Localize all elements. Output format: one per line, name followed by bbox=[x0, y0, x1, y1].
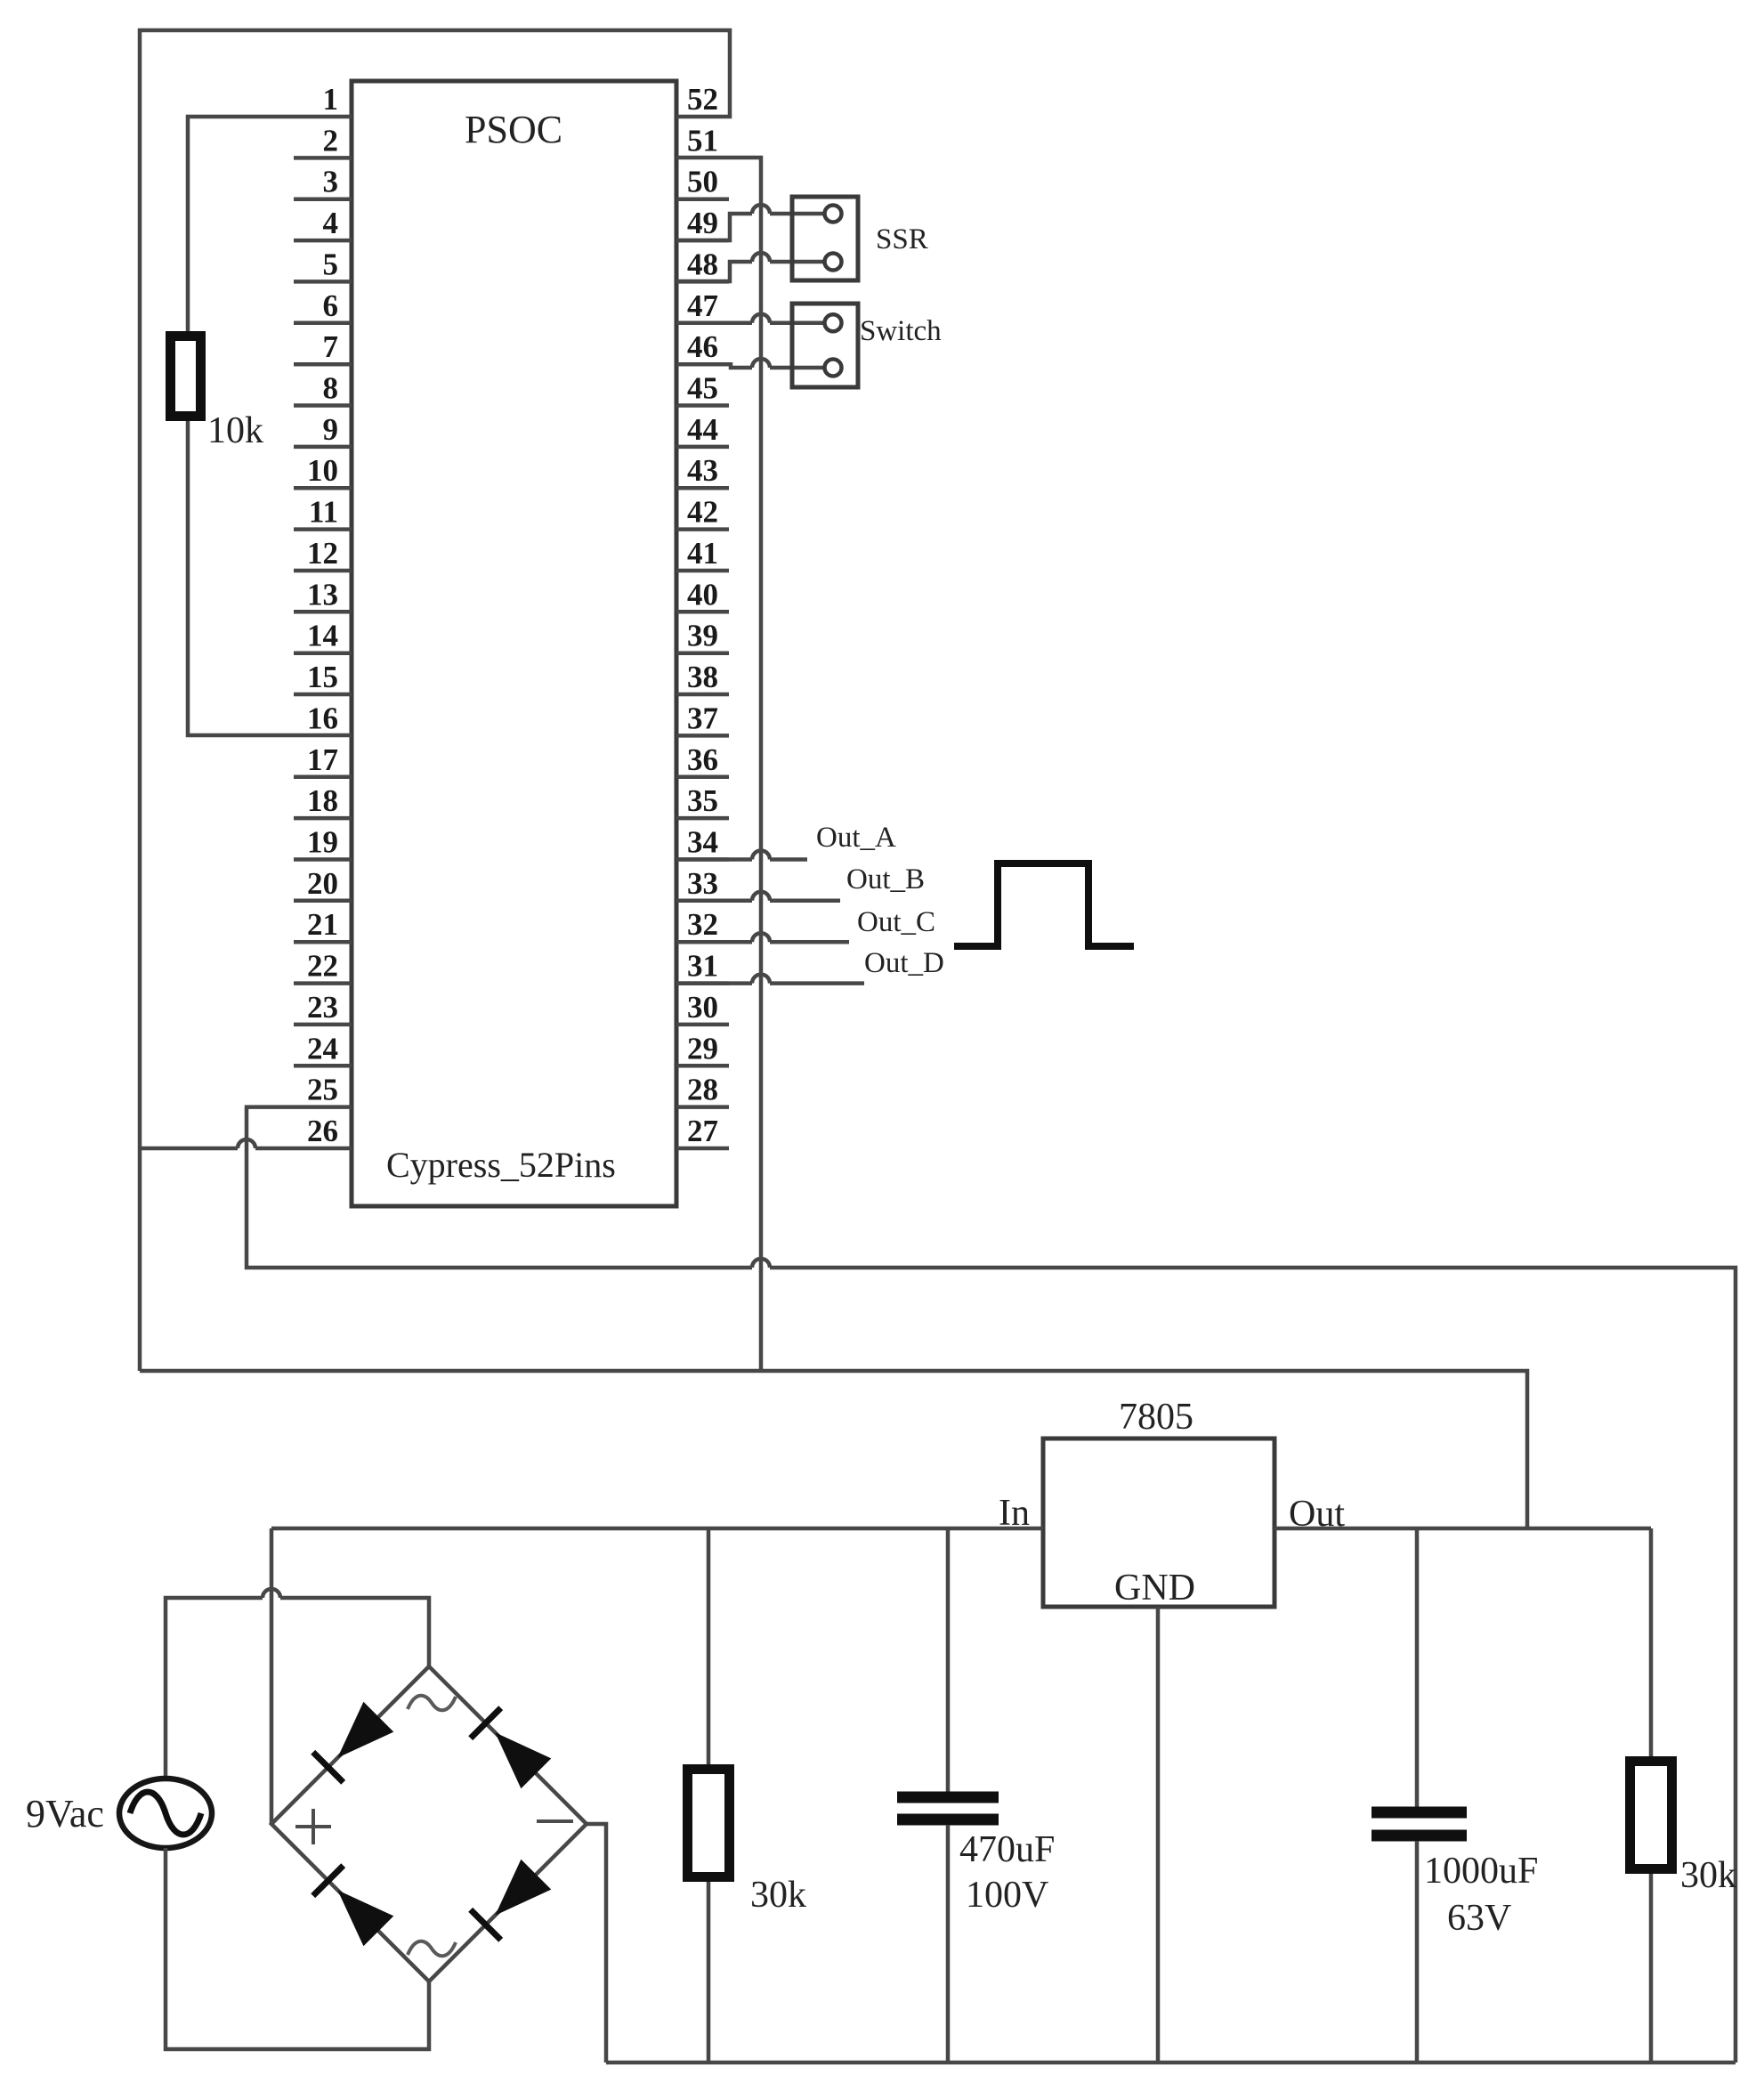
resistor R3 30k body bbox=[1630, 1762, 1672, 1869]
pin 11 bbox=[294, 495, 352, 530]
wire R2 to ground bbox=[707, 1882, 711, 2063]
svg-text:48: 48 bbox=[687, 247, 718, 281]
pin 43 bbox=[676, 453, 729, 488]
svg-text:2: 2 bbox=[323, 123, 339, 158]
wire In rail bbox=[271, 1527, 1043, 1531]
pin 48 bbox=[676, 247, 729, 281]
pin 38 bbox=[676, 660, 729, 694]
svg-text:11: 11 bbox=[309, 495, 338, 530]
wire pin1 to resistor top bbox=[188, 117, 352, 331]
svg-text:46: 46 bbox=[687, 329, 718, 364]
pin 14 bbox=[294, 619, 352, 653]
connector J2 Switch bbox=[792, 304, 858, 387]
svg-text:18: 18 bbox=[307, 783, 338, 818]
wire VCC top loop pin52 bbox=[140, 30, 730, 1371]
svg-text:27: 27 bbox=[687, 1114, 718, 1148]
svg-text:5: 5 bbox=[323, 247, 339, 281]
pin 51 bbox=[687, 123, 718, 158]
wire R3 to ground bbox=[1649, 1874, 1654, 2063]
SSR terminal 2 bbox=[825, 254, 842, 271]
wire pin49 to SSR pin1 bbox=[676, 214, 752, 240]
svg-text:37: 37 bbox=[687, 701, 718, 735]
wire C2 to ground bbox=[1415, 1841, 1420, 2063]
pin 19 bbox=[294, 825, 352, 860]
wire Out rail to C2 bbox=[1415, 1528, 1420, 1807]
svg-text:Out_D: Out_D bbox=[864, 947, 944, 979]
wire pin26 to VCC (left) bbox=[140, 1147, 238, 1151]
wire pin47 to Switch pin1 bbox=[676, 321, 752, 326]
pin 10 bbox=[294, 453, 352, 488]
svg-text:10k: 10k bbox=[207, 410, 263, 451]
connector J1 SSR bbox=[792, 197, 858, 280]
svg-text:43: 43 bbox=[687, 453, 718, 488]
svg-text:24: 24 bbox=[307, 1031, 338, 1066]
svg-text:Out_B: Out_B bbox=[846, 863, 925, 896]
svg-text:20: 20 bbox=[307, 866, 338, 901]
pin 23 bbox=[294, 990, 352, 1025]
svg-text:50: 50 bbox=[687, 165, 718, 199]
svg-text:39: 39 bbox=[687, 619, 718, 653]
svg-text:8: 8 bbox=[323, 371, 339, 406]
pin 33 bbox=[676, 866, 729, 901]
wire net Out_A bbox=[676, 857, 752, 862]
wire In rail to R2 bbox=[707, 1528, 711, 1764]
svg-text:17: 17 bbox=[307, 742, 338, 777]
AC source bottom lead to bridge bottom vertex bbox=[166, 1848, 429, 2049]
svg-text:13: 13 bbox=[307, 577, 338, 612]
svg-text:34: 34 bbox=[687, 825, 718, 860]
svg-text:15: 15 bbox=[307, 660, 338, 694]
svg-text:PSOC: PSOC bbox=[465, 108, 562, 151]
pin 45 bbox=[676, 371, 729, 406]
svg-text:35: 35 bbox=[687, 783, 718, 818]
bridge - mark bbox=[537, 1819, 573, 1823]
svg-text:GND: GND bbox=[1114, 1568, 1195, 1609]
pin 37 bbox=[676, 701, 729, 735]
svg-text:Switch: Switch bbox=[860, 315, 942, 347]
svg-text:16: 16 bbox=[307, 701, 338, 735]
diode D3 (bottom-left) bbox=[313, 1866, 394, 1947]
svg-text:Out_A: Out_A bbox=[816, 822, 896, 854]
svg-text:1000uF: 1000uF bbox=[1424, 1851, 1538, 1892]
svg-text:52: 52 bbox=[687, 82, 718, 117]
pin 34 bbox=[676, 825, 729, 860]
diode D4 (bottom-right) bbox=[471, 1860, 552, 1941]
bridge ~ mark top bbox=[408, 1696, 456, 1711]
svg-text:28: 28 bbox=[687, 1073, 718, 1107]
pin 22 bbox=[294, 949, 352, 984]
capacitor C1 470uF plates bbox=[897, 1792, 999, 1803]
wire Out rail bbox=[1274, 1527, 1651, 1531]
svg-text:25: 25 bbox=[307, 1073, 338, 1107]
wire Out rail to R3 bbox=[1649, 1528, 1654, 1756]
svg-text:30k: 30k bbox=[1680, 1855, 1736, 1896]
wire VCC rail to 7805 Out bbox=[140, 1371, 1527, 1528]
wire pin25 to ground rail (right) bbox=[247, 1107, 752, 1268]
pin 47 bbox=[676, 288, 729, 323]
SSR terminal 1 bbox=[825, 206, 842, 223]
regulator U2 7805 body bbox=[1043, 1439, 1274, 1607]
svg-text:32: 32 bbox=[687, 907, 718, 942]
resistor R2 30k body bbox=[688, 1770, 730, 1877]
pin 41 bbox=[676, 536, 729, 571]
svg-text:41: 41 bbox=[687, 536, 718, 571]
pin 39 bbox=[676, 619, 729, 653]
pin 9 bbox=[294, 412, 352, 447]
pin 27 bbox=[676, 1114, 729, 1148]
pin 24 bbox=[294, 1031, 352, 1066]
svg-text:40: 40 bbox=[687, 577, 718, 612]
wire bridge + output to In rail bbox=[270, 1528, 274, 1824]
pin 18 bbox=[294, 783, 352, 818]
wire net Out_B bbox=[676, 899, 752, 904]
svg-text:1: 1 bbox=[323, 82, 339, 117]
svg-text:29: 29 bbox=[687, 1031, 718, 1066]
svg-text:4: 4 bbox=[323, 206, 339, 240]
bridge + mark bbox=[295, 1809, 331, 1844]
pin 15 bbox=[294, 660, 352, 694]
pin 13 bbox=[294, 577, 352, 612]
svg-text:44: 44 bbox=[687, 412, 718, 447]
svg-text:23: 23 bbox=[307, 990, 338, 1025]
svg-text:Cypress_52Pins: Cypress_52Pins bbox=[386, 1145, 616, 1185]
wire net Out_C bbox=[676, 940, 752, 944]
pin 50 bbox=[676, 165, 729, 199]
svg-text:9: 9 bbox=[323, 412, 339, 447]
pin 28 bbox=[676, 1073, 729, 1107]
pin 31 bbox=[676, 949, 729, 984]
svg-text:42: 42 bbox=[687, 495, 718, 530]
Switch terminal 2 bbox=[825, 360, 842, 377]
svg-text:21: 21 bbox=[307, 907, 338, 942]
svg-text:33: 33 bbox=[687, 866, 718, 901]
wire resistor bottom to pin16 bbox=[188, 421, 352, 735]
pin 6 bbox=[294, 288, 352, 323]
pin 4 bbox=[294, 206, 352, 240]
bridge rectifier diamond bbox=[271, 1666, 587, 1981]
pin 20 bbox=[294, 866, 352, 901]
pin 12 bbox=[294, 536, 352, 571]
svg-text:30: 30 bbox=[687, 990, 718, 1025]
svg-text:12: 12 bbox=[307, 536, 338, 571]
svg-text:38: 38 bbox=[687, 660, 718, 694]
svg-text:3: 3 bbox=[323, 165, 339, 199]
pin 46 bbox=[676, 329, 729, 364]
wire pin46 to Switch pin2 bbox=[676, 364, 752, 368]
pin 7 bbox=[294, 329, 352, 364]
pin 2 bbox=[294, 123, 352, 158]
svg-text:10: 10 bbox=[307, 453, 338, 488]
wire 7805 GND to ground rail bbox=[1156, 1607, 1161, 2063]
AC source V1 9Vac top lead bbox=[166, 1598, 263, 1779]
wire In rail to C1 bbox=[946, 1528, 951, 1793]
pin 29 bbox=[676, 1031, 729, 1066]
svg-text:SSR: SSR bbox=[876, 223, 928, 255]
svg-text:14: 14 bbox=[307, 619, 338, 653]
wire ground rail bbox=[606, 2061, 1736, 2065]
pin 36 bbox=[676, 742, 729, 777]
svg-text:7805: 7805 bbox=[1119, 1397, 1194, 1438]
pin 40 bbox=[676, 577, 729, 612]
pin 52 bbox=[687, 82, 718, 117]
svg-text:63V: 63V bbox=[1447, 1898, 1511, 1939]
wire to bridge top vertex bbox=[280, 1598, 429, 1666]
pin 5 bbox=[294, 247, 352, 281]
pin 3 bbox=[294, 165, 352, 199]
pin 16 bbox=[307, 701, 338, 735]
diode D2 (top-right) bbox=[471, 1708, 552, 1789]
svg-text:45: 45 bbox=[687, 371, 718, 406]
pin 25 bbox=[307, 1073, 338, 1107]
resistor R1 10k body bbox=[171, 336, 201, 417]
pulse waveform symbol bbox=[954, 863, 1134, 946]
svg-text:7: 7 bbox=[323, 329, 339, 364]
pin 26 bbox=[307, 1114, 338, 1148]
svg-text:470uF: 470uF bbox=[959, 1829, 1055, 1870]
IC U1 PSOC Cypress_52Pins body bbox=[352, 81, 676, 1206]
wire bridge - output to ground rail bbox=[587, 1824, 606, 2063]
capacitor C2 1000uF plates bbox=[1372, 1807, 1467, 1819]
bridge ~ mark bottom bbox=[408, 1941, 456, 1957]
pin 17 bbox=[294, 742, 352, 777]
AC source V1 9Vac symbol bbox=[119, 1779, 212, 1848]
diode D1 (top-left) bbox=[313, 1702, 394, 1783]
pin 44 bbox=[676, 412, 729, 447]
wire net Out_D bbox=[676, 981, 752, 985]
pin 21 bbox=[294, 907, 352, 942]
svg-text:49: 49 bbox=[687, 206, 718, 240]
pin 35 bbox=[676, 783, 729, 818]
svg-text:31: 31 bbox=[687, 949, 718, 984]
pin 1 bbox=[323, 82, 339, 117]
svg-text:51: 51 bbox=[687, 123, 718, 158]
wire pin48 to SSR pin2 bbox=[676, 262, 752, 281]
svg-text:6: 6 bbox=[323, 288, 339, 323]
svg-text:19: 19 bbox=[307, 825, 338, 860]
svg-text:Out_C: Out_C bbox=[857, 906, 935, 938]
pin 42 bbox=[676, 495, 729, 530]
svg-text:36: 36 bbox=[687, 742, 718, 777]
svg-text:47: 47 bbox=[687, 288, 718, 323]
pin 49 bbox=[676, 206, 729, 240]
wire C1 to ground bbox=[946, 1825, 951, 2063]
pin 8 bbox=[294, 371, 352, 406]
svg-text:22: 22 bbox=[307, 949, 338, 984]
svg-text:26: 26 bbox=[307, 1114, 338, 1148]
svg-text:100V: 100V bbox=[966, 1875, 1048, 1916]
svg-text:30k: 30k bbox=[750, 1875, 806, 1916]
wire pin51 to VCC vertical bbox=[676, 158, 761, 1371]
Switch terminal 1 bbox=[825, 314, 842, 331]
pin 30 bbox=[676, 990, 729, 1025]
pin 32 bbox=[676, 907, 729, 942]
svg-text:9Vac: 9Vac bbox=[26, 1792, 104, 1836]
